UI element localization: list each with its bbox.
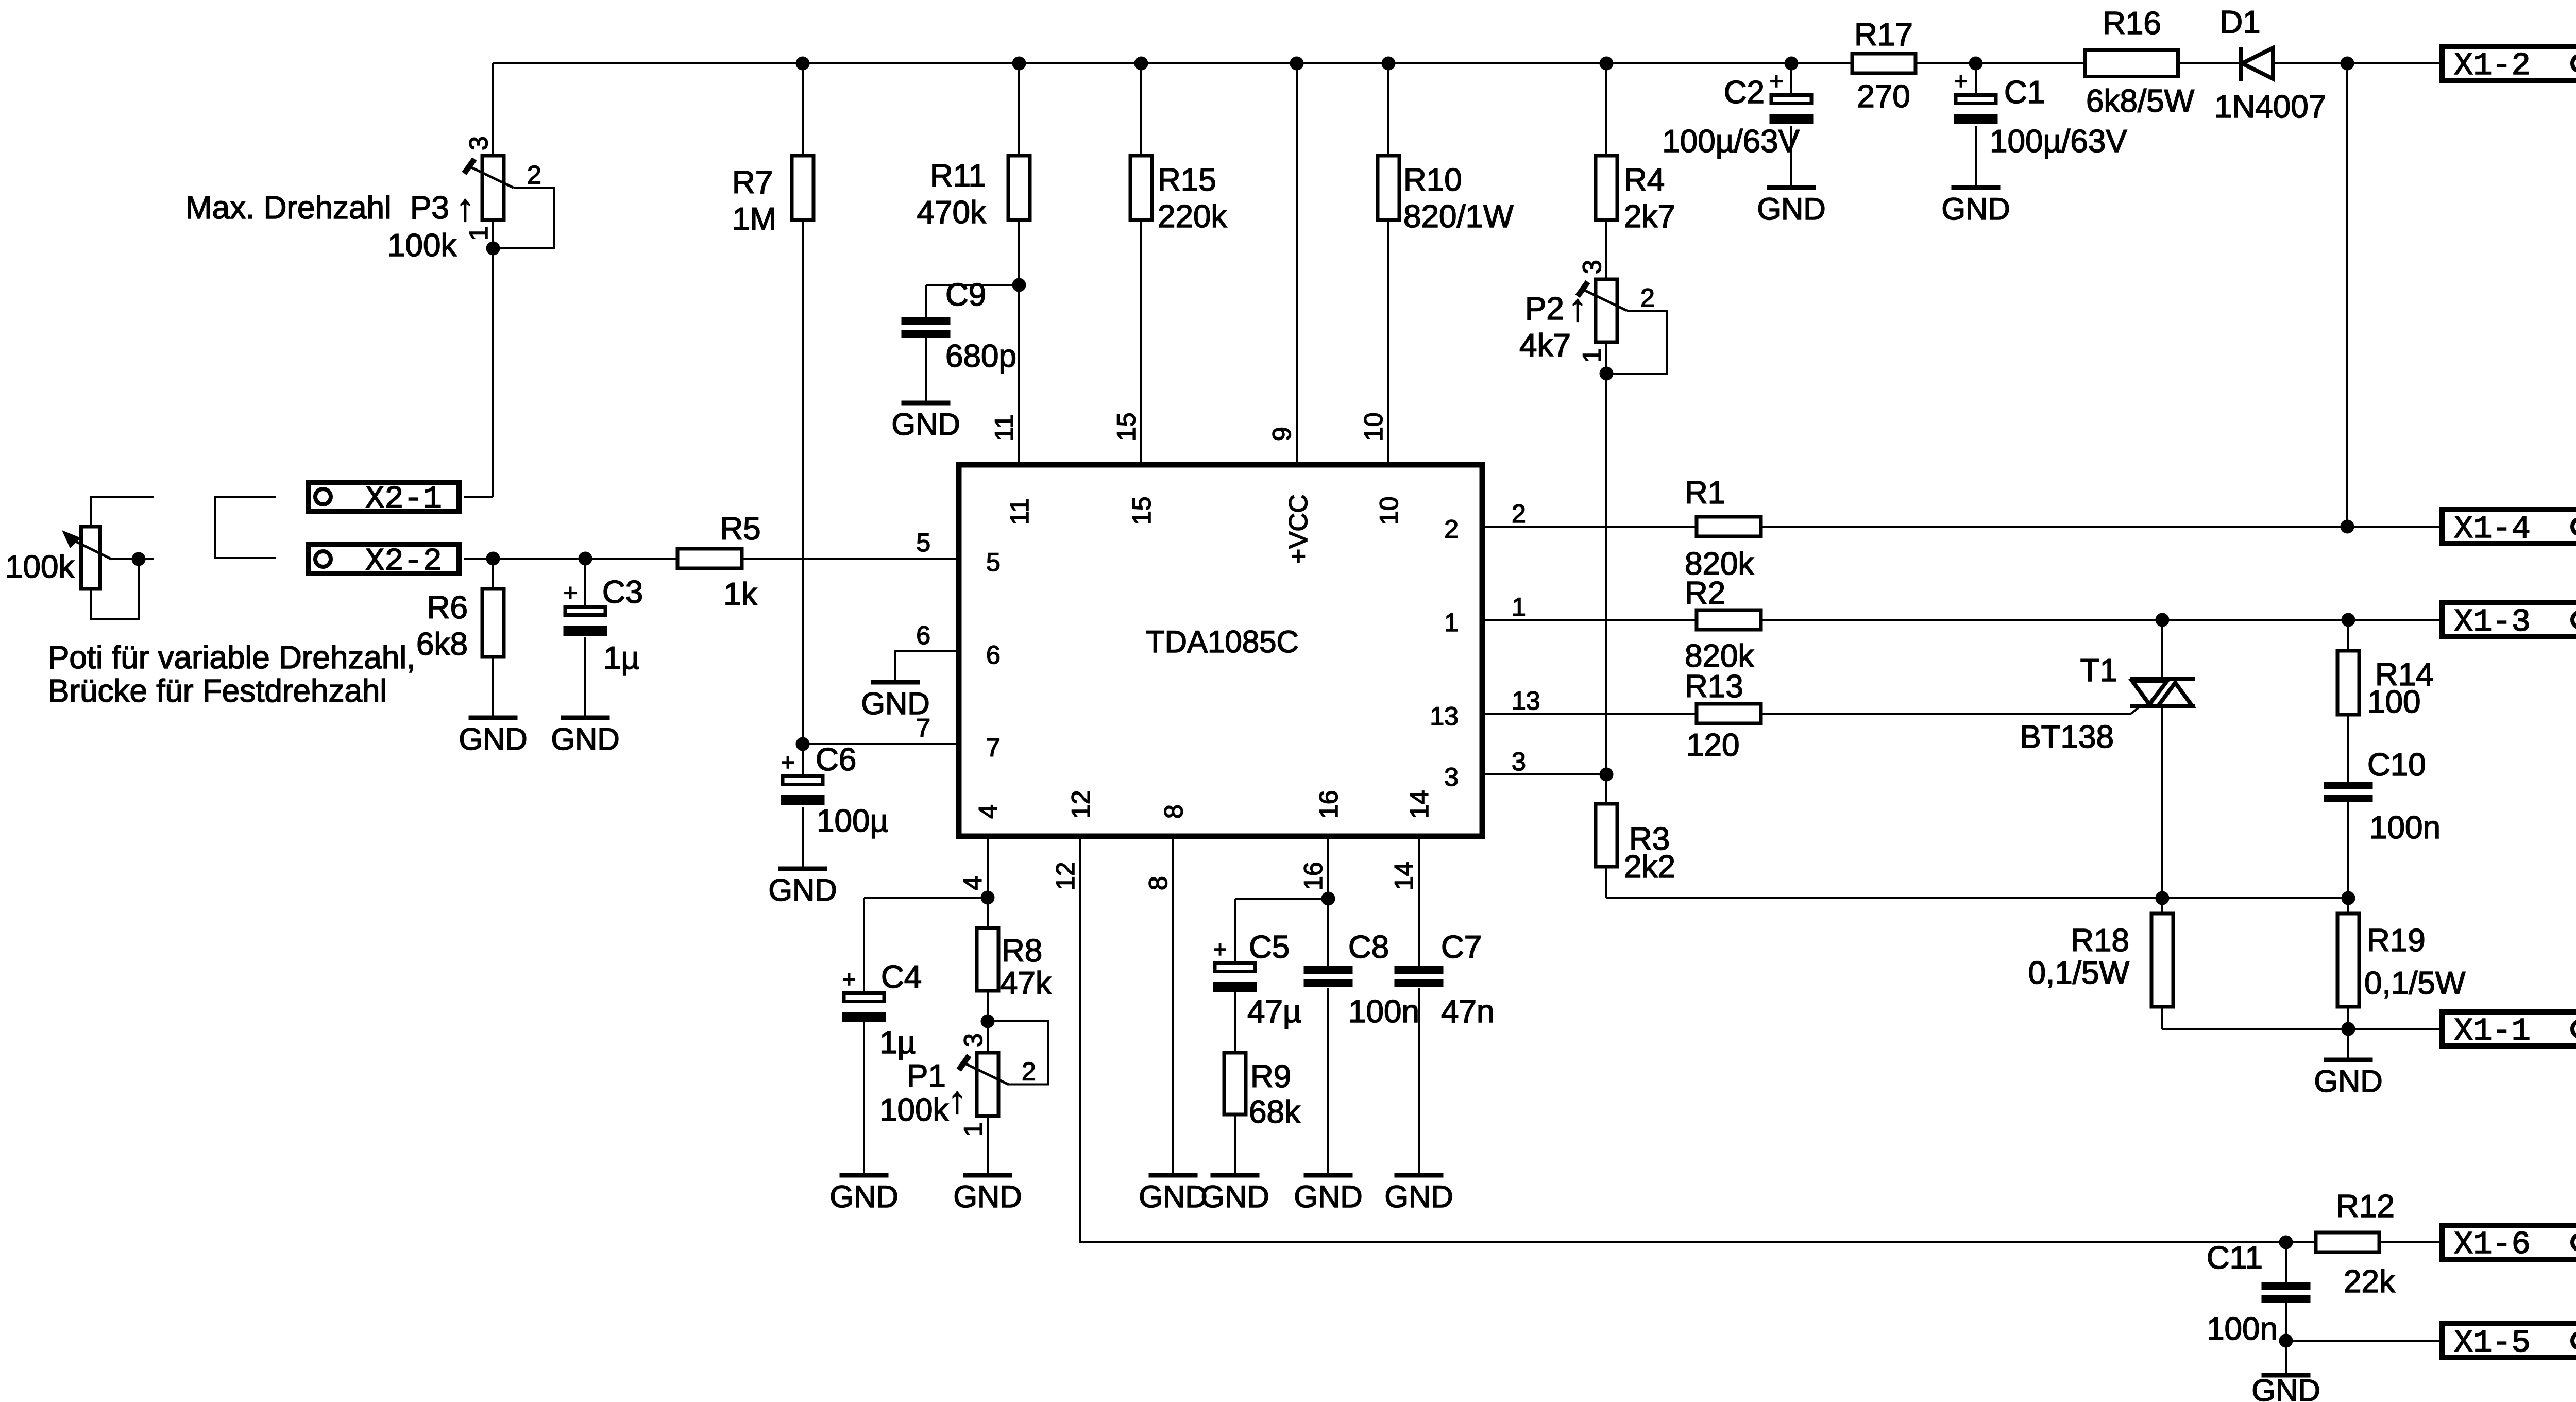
svg-text:100k: 100k [879, 1092, 949, 1128]
ground C2 [1767, 185, 1816, 190]
svg-text:12: 12 [1066, 790, 1095, 819]
svg-text:+: + [1954, 67, 1968, 94]
svg-text:3: 3 [1444, 763, 1459, 791]
svg-text:2: 2 [1022, 1057, 1036, 1086]
wire VCC top bus [493, 62, 2242, 64]
terminal X1-2 [2442, 46, 2576, 80]
svg-text:1N4007: 1N4007 [2214, 89, 2326, 125]
ground C6 [778, 867, 827, 871]
wire R11 column to pin 11 [1018, 63, 1020, 465]
ground C3 [561, 716, 610, 720]
diode D1 1N4007 [2239, 47, 2243, 81]
ground C1 [1952, 185, 2001, 190]
svg-text:GND: GND [1200, 1179, 1269, 1214]
node VCC pin9 top [1290, 57, 1304, 71]
svg-text:0,1/5W: 0,1/5W [2364, 966, 2466, 1001]
svg-text:C11: C11 [2207, 1240, 2263, 1276]
terminal X1-6 [2442, 1225, 2576, 1259]
svg-text:C8: C8 [1348, 930, 1389, 965]
resistor R17 [1852, 54, 1916, 73]
wire pin 14 / C7 column [1418, 836, 1420, 966]
terminal X1-3 [2442, 603, 2576, 637]
svg-text:14: 14 [1405, 790, 1434, 819]
wire pin 2 line to X1-4 [1482, 526, 2347, 528]
svg-text:+: + [1213, 936, 1227, 962]
wire R15 column to pin 15 [1140, 63, 1142, 465]
ground X1-1 node [2324, 1058, 2373, 1062]
ground C4 [840, 1173, 889, 1178]
svg-text:11: 11 [1005, 498, 1034, 525]
wire X2-2 / R5 line to pin 5 [464, 558, 959, 560]
wire bridge bracket [215, 497, 276, 558]
svg-text:6: 6 [986, 640, 1001, 669]
resistor R5 [677, 549, 742, 568]
svg-text:R17: R17 [1854, 17, 1913, 53]
node R15 top [1134, 57, 1148, 71]
svg-text:12: 12 [1051, 862, 1080, 890]
svg-text:R15: R15 [1158, 162, 1216, 198]
IC U1 TDA1085C box [959, 465, 1482, 836]
wire R7 column to pin 7 [802, 63, 804, 744]
svg-text:↑: ↑ [948, 1078, 967, 1121]
capacitor C10 [2324, 782, 2373, 789]
svg-text:R4: R4 [1624, 162, 1665, 198]
node C10/R19 [2342, 891, 2355, 905]
svg-text:X1-1: X1-1 [2454, 1013, 2531, 1050]
svg-text:X1-5: X1-5 [2454, 1325, 2531, 1361]
svg-text:15: 15 [1127, 496, 1156, 525]
svg-text:X1-4: X1-4 [2454, 511, 2531, 547]
svg-text:3: 3 [959, 1033, 988, 1048]
svg-text:120: 120 [1686, 728, 1739, 763]
svg-text:R16: R16 [2103, 6, 2161, 41]
svg-text:1M: 1M [732, 201, 776, 237]
external potentiometer 100k [81, 527, 100, 589]
svg-text:R9: R9 [1250, 1059, 1291, 1094]
svg-text:3: 3 [464, 136, 493, 150]
svg-text:13: 13 [1512, 686, 1540, 715]
node ext pot wiper [132, 552, 146, 566]
node R14 top [2342, 613, 2355, 627]
svg-text:R1: R1 [1685, 475, 1725, 511]
svg-text:6k8: 6k8 [416, 627, 468, 662]
node R7 top [796, 57, 810, 71]
svg-text:GND: GND [768, 873, 837, 907]
node D1 out [2341, 57, 2354, 71]
ground R9 [1211, 1173, 1260, 1178]
svg-text:100µ/63V: 100µ/63V [1990, 124, 2127, 159]
svg-text:+VCC: +VCC [1284, 494, 1313, 564]
svg-text:2k7: 2k7 [1624, 199, 1675, 234]
ground P1 [963, 1173, 1012, 1178]
svg-text:14: 14 [1389, 862, 1418, 890]
svg-text:C6: C6 [816, 742, 856, 778]
node C3 top [579, 552, 592, 566]
terminal X2-2 [309, 545, 459, 573]
resistor R12 [2316, 1232, 2379, 1252]
svg-text:8: 8 [1144, 876, 1173, 890]
svg-text:Max. Drehzahl: Max. Drehzahl [185, 190, 392, 226]
svg-text:1: 1 [1444, 608, 1459, 637]
wire C4 branch [864, 897, 988, 899]
wire external pot bottom loop [91, 559, 139, 619]
svg-text:470k: 470k [917, 195, 987, 230]
wire C6 under pin 7 [802, 744, 804, 776]
potentiometer P2 [1596, 279, 1617, 342]
wire X1-1 rail [2162, 1028, 2444, 1030]
wire R3 bottom rail [1606, 897, 2348, 899]
resistor R6 [482, 589, 504, 657]
terminal X2-1 [309, 482, 459, 511]
svg-text:100k: 100k [5, 549, 75, 585]
ground C9 [902, 401, 951, 406]
svg-text:X1-3: X1-3 [2454, 604, 2531, 640]
svg-text:X1-6: X1-6 [2454, 1226, 2531, 1263]
svg-text:GND: GND [2251, 1373, 2320, 1402]
svg-text:6: 6 [916, 621, 930, 650]
capacitor C5 [1215, 964, 1255, 972]
terminal X1-5 [2442, 1324, 2576, 1358]
svg-text:C2: C2 [1724, 75, 1765, 110]
wire pin 12 rail to tacho [1080, 836, 2286, 1242]
node T1 anode [2156, 613, 2170, 627]
node pin7/C6 [796, 737, 810, 751]
node X1-4 [2341, 520, 2354, 534]
wire +VCC pin 9 column [1296, 63, 1298, 465]
svg-text:9: 9 [1267, 427, 1296, 441]
node C2 top [1785, 57, 1799, 71]
svg-text:0,1/5W: 0,1/5W [2028, 955, 2130, 991]
svg-text:5: 5 [986, 548, 1001, 577]
svg-text:100µ/63V: 100µ/63V [1662, 124, 1800, 159]
svg-text:+: + [1770, 67, 1784, 94]
node T1/R18 [2156, 891, 2170, 905]
svg-text:X2-1: X2-1 [365, 481, 442, 517]
svg-text:13: 13 [1430, 702, 1459, 731]
ground R6 [469, 716, 518, 720]
svg-text:220k: 220k [1158, 199, 1227, 234]
svg-text:1: 1 [1578, 348, 1606, 363]
svg-text:GND: GND [953, 1179, 1022, 1214]
svg-text:100: 100 [2367, 684, 2420, 720]
svg-text:C4: C4 [881, 959, 922, 995]
potentiometer P3 [482, 156, 504, 220]
svg-text:GND: GND [1139, 1179, 1207, 1214]
svg-text:GND: GND [551, 722, 619, 756]
wire P3 column [492, 63, 494, 156]
svg-text:8: 8 [1159, 804, 1188, 819]
wire R14/C10/R19 column [2347, 620, 2349, 651]
svg-text:Brücke für Festdrehzahl: Brücke für Festdrehzahl [48, 673, 387, 709]
svg-text:X1-2: X1-2 [2454, 47, 2531, 84]
node C9 tap [1012, 278, 1026, 292]
terminal X1-1 [2442, 1012, 2576, 1046]
resistor R11 [1008, 156, 1030, 220]
node R19/GND/X1-1 [2342, 1022, 2355, 1036]
wire pin 8 to GND [1172, 836, 1174, 1173]
svg-text:22k: 22k [2344, 1264, 2396, 1299]
svg-text:+: + [564, 579, 578, 606]
wire pin 3 line [1482, 773, 1606, 775]
node pin16/C5/C8 [1321, 892, 1335, 906]
svg-text:X2-2: X2-2 [365, 543, 442, 580]
wire X1-5 line [2286, 1340, 2444, 1342]
node R11 top [1012, 57, 1026, 71]
svg-text:+: + [842, 966, 856, 992]
resistor R8 [977, 928, 998, 991]
svg-text:7: 7 [986, 733, 1001, 762]
svg-text:100n: 100n [2207, 1311, 2278, 1347]
wire R10 column to pin 10 [1387, 63, 1389, 465]
svg-text:C5: C5 [1249, 930, 1290, 965]
wire pin 7 [803, 743, 959, 745]
svg-text:3: 3 [1512, 747, 1526, 776]
svg-text:GND: GND [459, 722, 527, 756]
svg-text:C1: C1 [2004, 75, 2045, 110]
svg-text:4: 4 [958, 876, 987, 890]
svg-text:C9: C9 [945, 277, 986, 313]
svg-text:2: 2 [527, 161, 541, 190]
svg-text:10: 10 [1359, 412, 1388, 441]
resistor R3 [1596, 804, 1617, 867]
svg-text:1: 1 [1512, 593, 1526, 621]
svg-text:R13: R13 [1685, 669, 1743, 704]
svg-text:47k: 47k [1000, 966, 1052, 1001]
svg-text:T1: T1 [2080, 653, 2117, 688]
wire pin 6 to GND [895, 651, 959, 680]
wire C11 column [2285, 1242, 2287, 1282]
wire C3 column [584, 559, 586, 606]
resistor R4 [1596, 156, 1617, 220]
svg-text:R8: R8 [1002, 933, 1042, 969]
svg-text:1µ: 1µ [603, 640, 639, 676]
triac T1 BT138 [2130, 677, 2195, 681]
node P3 bottom [486, 242, 500, 256]
resistor R1 [1697, 517, 1761, 536]
wire R12 to X1-6 [2286, 1241, 2444, 1243]
svg-text:R5: R5 [720, 511, 760, 547]
capacitor C4 [844, 993, 884, 1002]
svg-text:GND: GND [861, 686, 929, 721]
node pin4/C4/R8 [981, 891, 995, 905]
capacitor C7 [1395, 966, 1444, 974]
svg-text:2: 2 [1444, 515, 1459, 544]
svg-text:GND: GND [829, 1179, 898, 1214]
svg-text:47µ: 47µ [1247, 994, 1301, 1029]
svg-text:+: + [781, 749, 795, 775]
wire pin 4 column [987, 836, 989, 928]
capacitor C3 [565, 607, 605, 615]
svg-text:100n: 100n [2369, 810, 2441, 846]
svg-text:4: 4 [974, 804, 1003, 819]
svg-text:GND: GND [1757, 192, 1825, 226]
wire C5 branch [1235, 898, 1328, 900]
svg-text:GND: GND [1941, 192, 2010, 226]
wire pin 13 line to triac gate [1482, 713, 2131, 715]
node C11/R12 [2279, 1236, 2293, 1249]
svg-text:GND: GND [1384, 1179, 1453, 1214]
svg-text:1µ: 1µ [879, 1025, 916, 1060]
ground C7 [1395, 1173, 1444, 1178]
svg-text:68k: 68k [1249, 1094, 1301, 1130]
svg-text:C10: C10 [2367, 747, 2426, 783]
svg-text:BT138: BT138 [2020, 719, 2114, 755]
svg-text:15: 15 [1112, 412, 1141, 441]
svg-text:2k2: 2k2 [1624, 849, 1675, 885]
wire external pot top [91, 497, 154, 527]
svg-text:820/1W: 820/1W [1403, 199, 1514, 234]
svg-text:P2: P2 [1525, 291, 1564, 327]
node pin3/R3 [1600, 768, 1614, 782]
resistor R10 [1378, 156, 1399, 220]
svg-text:680p: 680p [945, 339, 1016, 374]
svg-text:1k: 1k [723, 577, 757, 612]
svg-text:C3: C3 [602, 575, 643, 610]
wire pin 16 / C8 column [1327, 836, 1329, 966]
svg-text:2: 2 [1640, 283, 1655, 312]
node R8/P1 [981, 1015, 995, 1028]
svg-text:R12: R12 [2336, 1189, 2395, 1224]
ground C8 [1304, 1173, 1353, 1178]
svg-text:100µ: 100µ [817, 803, 888, 839]
svg-text:4k7: 4k7 [1519, 328, 1571, 363]
capacitor C1 [1956, 95, 1996, 104]
resistor R18 [2151, 914, 2173, 1007]
svg-text:16: 16 [1314, 790, 1343, 819]
svg-text:↑: ↑ [1568, 286, 1587, 329]
capacitor C2 [1771, 95, 1811, 104]
svg-text:P3: P3 [410, 190, 449, 226]
node R10 top [1382, 57, 1396, 71]
ground pin 8 [1149, 1173, 1198, 1178]
ground C11 [2262, 1373, 2311, 1378]
svg-text:270: 270 [1857, 79, 1910, 114]
resistor R19 [2337, 914, 2359, 1007]
resistor R14 [2337, 651, 2359, 715]
svg-text:16: 16 [1299, 862, 1328, 890]
wire C1 column [1975, 63, 1977, 95]
svg-text:11: 11 [990, 414, 1019, 441]
svg-text:C7: C7 [1441, 930, 1482, 965]
terminal X1-4 [2442, 510, 2576, 544]
svg-text:R18: R18 [2071, 923, 2129, 958]
wire X1-2 column down to X1-4 node [2346, 63, 2348, 527]
capacitor C11 [2262, 1282, 2311, 1290]
wire C9 branch [926, 284, 1019, 286]
svg-text:R11: R11 [930, 158, 986, 194]
capacitor C6 [783, 776, 823, 785]
svg-text:↑: ↑ [456, 186, 475, 229]
wire pin 1 line to X1-3 [1482, 619, 2444, 621]
resistor R2 [1697, 610, 1761, 630]
node C11/X1-5 [2279, 1334, 2293, 1348]
node C1 top [1969, 57, 1983, 71]
svg-text:100n: 100n [1348, 994, 1419, 1029]
svg-text:R6: R6 [427, 590, 468, 626]
ground pin 6 [871, 680, 920, 685]
svg-text:100k: 100k [387, 228, 457, 263]
svg-text:TDA1085C: TDA1085C [1146, 624, 1299, 659]
wire R6 column [492, 559, 494, 589]
node R6 top [486, 552, 500, 566]
svg-text:3: 3 [1578, 260, 1606, 274]
svg-text:Poti für variable Drehzahl,: Poti für variable Drehzahl, [48, 640, 415, 675]
svg-text:R7: R7 [732, 165, 773, 200]
svg-text:D1: D1 [2219, 5, 2260, 40]
svg-text:R19: R19 [2367, 923, 2426, 958]
resistor R15 [1130, 156, 1152, 220]
svg-text:GND: GND [2314, 1064, 2382, 1099]
svg-text:6k8/5W: 6k8/5W [2086, 83, 2195, 119]
resistor R7 [792, 156, 814, 220]
svg-text:47n: 47n [1441, 994, 1494, 1029]
svg-text:P1: P1 [907, 1058, 946, 1094]
capacitor C8 [1304, 966, 1353, 974]
resistor R9 [1224, 1053, 1246, 1114]
resistor R13 [1697, 704, 1761, 723]
capacitor C9 [902, 317, 951, 325]
potentiometer P1 [977, 1053, 998, 1116]
node R4 top [1600, 57, 1614, 71]
node P2 bottom [1600, 367, 1614, 381]
svg-text:R2: R2 [1685, 576, 1725, 611]
wire C2 column [1790, 63, 1792, 95]
svg-text:2: 2 [1512, 499, 1526, 528]
wire R4/P2/R3 column [1605, 63, 1607, 898]
svg-text:5: 5 [916, 528, 930, 557]
svg-text:R10: R10 [1403, 162, 1462, 198]
svg-text:1: 1 [959, 1122, 988, 1137]
svg-text:GND: GND [1294, 1179, 1362, 1214]
svg-text:GND: GND [891, 407, 960, 442]
resistor R16 [2086, 50, 2178, 77]
wire T1 column [2161, 620, 2163, 679]
svg-text:10: 10 [1375, 496, 1403, 525]
